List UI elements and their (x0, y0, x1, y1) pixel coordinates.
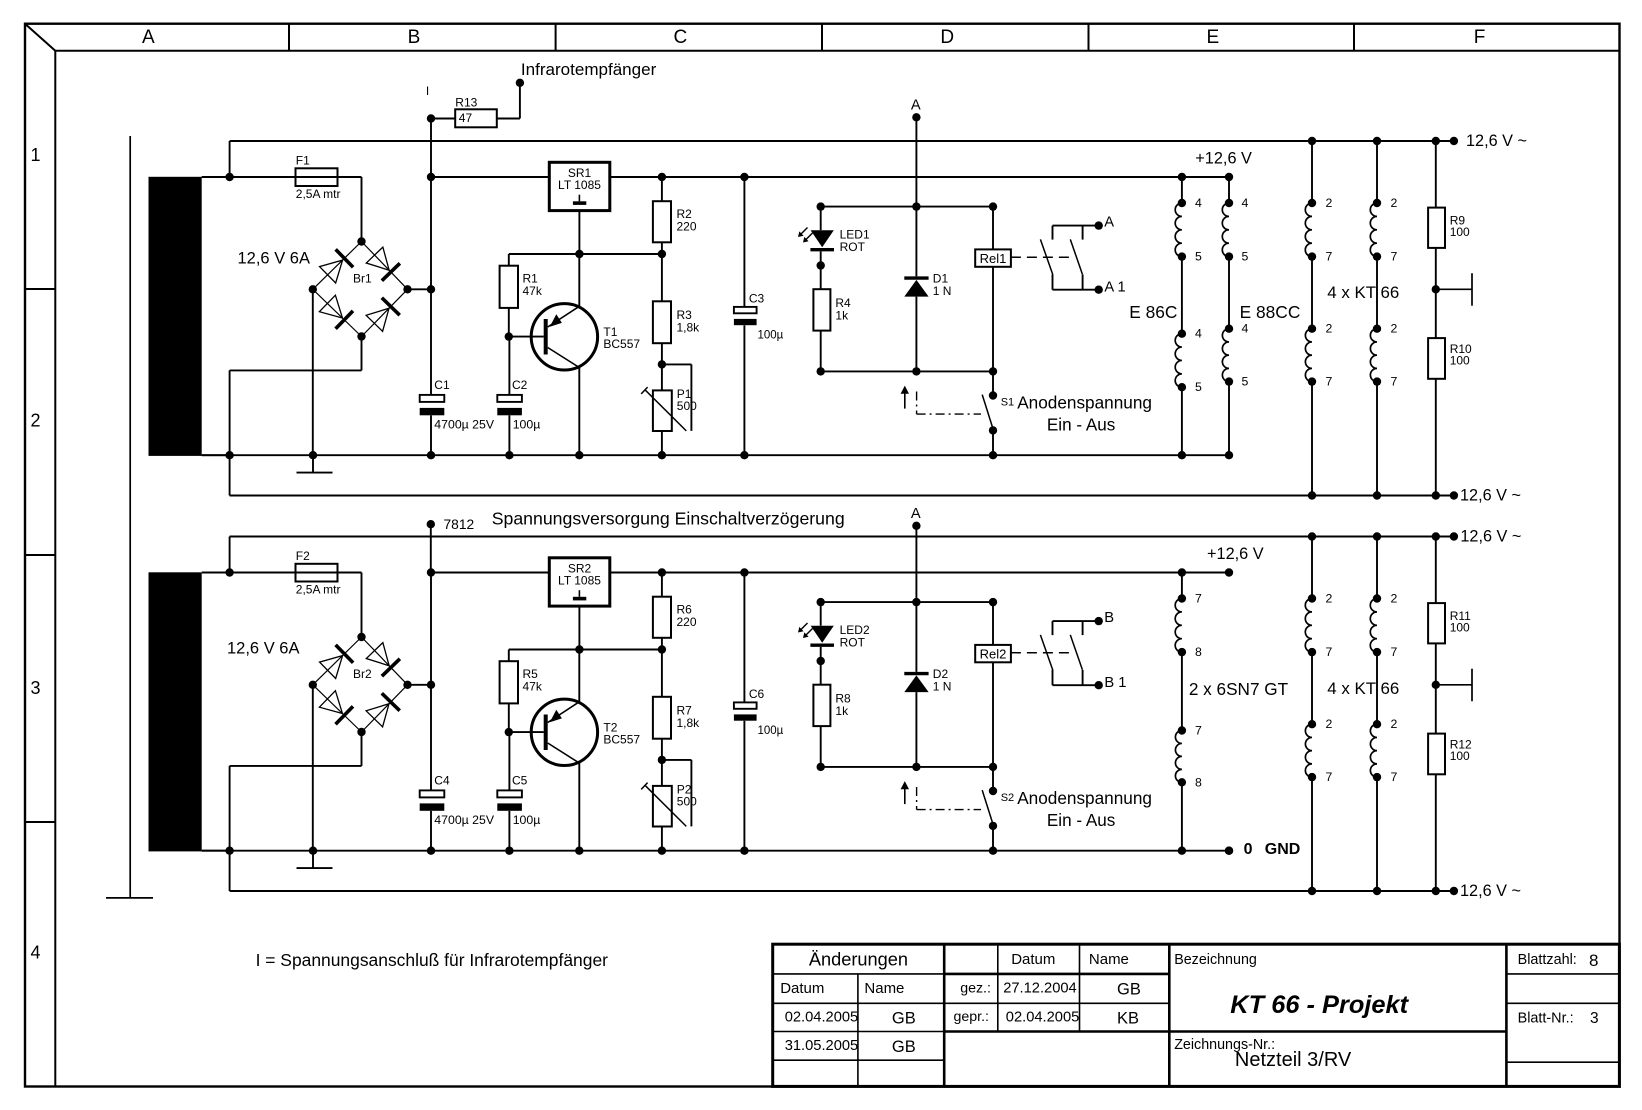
heater winding column E 88CC lower coil (1222, 257, 1233, 456)
svg-text:4 x KT 66: 4 x KT 66 (1327, 679, 1399, 698)
svg-text:7812: 7812 (444, 517, 475, 532)
junction on 0V bus (1178, 451, 1186, 459)
KT 66 heater column 2 lower coil (1370, 257, 1381, 496)
voltage regulator SR2 LT 1085 (549, 558, 610, 606)
svg-text:2: 2 (1326, 592, 1333, 606)
wire SR1 adj to divider (509, 211, 662, 254)
svg-text:2: 2 (1391, 592, 1398, 606)
svg-text:GB: GB (892, 1009, 916, 1027)
svg-text:B: B (1104, 610, 1114, 626)
svg-text:7: 7 (1391, 375, 1398, 389)
potentiometer P1 500 (641, 364, 691, 455)
junction divider top node (658, 645, 666, 653)
junction on LED relay bottom rail (989, 367, 997, 375)
junction on 0V bus (309, 847, 317, 855)
heater winding column 2 x 6SN7 GT upper coil (1175, 573, 1186, 657)
title block vertical divider before Blattzahl (1505, 944, 1508, 1086)
KT 66 heater column 2 upper coil (1370, 537, 1381, 657)
junction on LED relay top rail (989, 598, 997, 606)
switch S1 Anodenspannung Ein - Aus (982, 371, 997, 455)
ground pin symbol inside SR1 (573, 195, 586, 205)
svg-text:A: A (911, 506, 921, 522)
resistor R4 1k (813, 266, 830, 372)
svg-text:4: 4 (1195, 196, 1202, 210)
svg-text:1 N: 1 N (933, 680, 952, 694)
junction heater center tap (1432, 681, 1440, 689)
frame row divider 1 (25, 288, 55, 290)
svg-text:8: 8 (1195, 645, 1202, 659)
resistor R9 100 (1428, 141, 1445, 289)
svg-text:Datum: Datum (780, 980, 824, 997)
svg-text:Anodenspannung: Anodenspannung (1017, 788, 1152, 808)
frame left band line (54, 51, 56, 1087)
svg-text:5: 5 (1242, 250, 1249, 264)
junction transformer top (225, 568, 233, 576)
svg-text:GB: GB (892, 1038, 916, 1056)
ground symbol at heater center tap (1436, 273, 1472, 306)
junction LED cathode node (817, 261, 825, 269)
junction on upper 12,6 V ~ rail (1308, 532, 1316, 540)
voltage regulator SR1 LT 1085 (549, 162, 610, 210)
KT 66 heater column 1 lower coil (1305, 652, 1316, 891)
svg-text:Br1: Br1 (353, 272, 372, 286)
junction bridge Br1 top node (357, 237, 365, 245)
frame header band line (55, 50, 1619, 52)
junction on LED relay top rail (817, 202, 825, 210)
LED LED1 ROT (798, 207, 834, 266)
wire 12,6 V ~ lower rail (230, 851, 1454, 891)
svg-text:500: 500 (677, 795, 697, 809)
resistor R6 220 (653, 573, 671, 650)
junction on +12,6V bus (740, 568, 748, 576)
svg-text:A 1: A 1 (1104, 279, 1125, 295)
svg-text:Name: Name (864, 980, 904, 997)
svg-text:2: 2 (30, 410, 40, 430)
svg-text:Bezeichnung: Bezeichnung (1174, 952, 1257, 968)
wire T2 collector to 0V bus (578, 763, 580, 851)
svg-text:Ein - Aus: Ein - Aus (1047, 416, 1115, 435)
junction on 0V bus (575, 451, 583, 459)
svg-text:2 x 6SN7 GT: 2 x 6SN7 GT (1189, 679, 1289, 699)
junction on 0V bus (575, 847, 583, 855)
wire transformer bottom to 0V bus node (202, 850, 230, 852)
terminal B 1 (1095, 681, 1103, 689)
transformer TR2 secondary winding (12,6 V 6A) (149, 572, 202, 851)
svg-text:4: 4 (30, 943, 40, 963)
junction transformer top (225, 173, 233, 181)
junction 7812 node (427, 520, 435, 528)
svg-text:ROT: ROT (840, 240, 866, 254)
svg-text:12,6 V ~: 12,6 V ~ (1460, 882, 1521, 900)
wire A terminal vertical (915, 526, 917, 602)
svg-text:LT 1085: LT 1085 (558, 178, 601, 192)
junction regulator adj node (575, 250, 583, 258)
svg-text:100µ: 100µ (513, 813, 541, 827)
junction on lower 12,6 V ~ rail (1308, 491, 1316, 499)
svg-text:8: 8 (1195, 775, 1202, 789)
svg-text:02.04.2005: 02.04.2005 (785, 1009, 859, 1025)
wire A terminal vertical (915, 117, 917, 206)
svg-text:A: A (1104, 215, 1114, 231)
frame column divider 5 (1353, 24, 1355, 51)
wire LED relay bottom rail (821, 370, 993, 372)
junction on 0V bus (989, 847, 997, 855)
KT 66 heater column 2 lower coil (1370, 652, 1381, 891)
junction base node (505, 332, 513, 340)
svg-text:8: 8 (1589, 951, 1598, 970)
wire bridge Br1 plus output (408, 288, 432, 290)
wire 0V bus (202, 850, 1229, 852)
heater winding column E 86C upper coil (1175, 177, 1186, 261)
label 0 GND (1244, 841, 1301, 858)
svg-text:+12,6 V: +12,6 V (1207, 545, 1264, 563)
title block vertical divider revisions/approvals (943, 944, 946, 1086)
capacitor C2 100u (497, 337, 522, 456)
svg-text:BC557: BC557 (603, 733, 640, 747)
svg-text:C6: C6 (749, 687, 765, 701)
junction bridge Br2 bottom node (357, 728, 365, 736)
svg-text:12,6 V 6A: 12,6 V 6A (227, 639, 299, 657)
capacitor C4 4700u 25V (420, 790, 445, 810)
capacitor C6 100u (734, 573, 757, 851)
svg-text:100µ: 100µ (758, 329, 784, 341)
frame column divider 4 (1088, 24, 1090, 51)
junction base node (505, 728, 513, 736)
svg-text:220: 220 (677, 615, 697, 629)
svg-text:Blatt-Nr.:: Blatt-Nr.: (1518, 1011, 1574, 1027)
junction on LED relay bottom rail (912, 367, 920, 375)
bridge Br1 diode left-bottom arm (313, 289, 362, 336)
transistor T2 BC557 base wire (509, 731, 544, 733)
svg-text:100: 100 (1450, 354, 1470, 368)
svg-text:7: 7 (1391, 250, 1398, 264)
junction on 0V bus (989, 451, 997, 459)
svg-text:500: 500 (677, 399, 697, 413)
svg-text:1: 1 (30, 145, 40, 165)
junction on upper 12,6 V ~ rail (1373, 137, 1381, 145)
svg-text:2: 2 (1326, 196, 1333, 210)
junction raw DC on +bus (427, 568, 435, 576)
actuation arrow for switch (901, 386, 909, 409)
title block row line under Bezeichnung (1169, 1030, 1506, 1033)
wire 12,6 V ~ upper rail (230, 141, 1454, 177)
title block row line under Aenderungen (773, 973, 945, 975)
diode D2 1N (904, 602, 928, 767)
terminal Infrarotempfaenger (516, 79, 524, 87)
svg-text:100µ: 100µ (758, 725, 784, 737)
wire transformer bottom to 0V bus node (202, 454, 230, 456)
terminal 12,6 V ~ upper (1450, 532, 1458, 540)
svg-text:2: 2 (1326, 322, 1333, 336)
junction on 0V bus (740, 451, 748, 459)
wire +12,6V bus (431, 176, 1229, 178)
wire transformer top to fuse node (202, 176, 230, 178)
frame column divider 1 (288, 24, 290, 51)
svg-text:47k: 47k (523, 284, 543, 298)
junction on lower 12,6 V ~ rail (1432, 491, 1440, 499)
svg-text:12,6 V 6A: 12,6 V 6A (238, 250, 310, 268)
svg-text:1,8k: 1,8k (677, 716, 701, 730)
svg-text:7: 7 (1195, 592, 1202, 606)
junction potentiometer top node (658, 756, 666, 764)
terminal 12,6 V ~ lower (1450, 491, 1458, 499)
title block vertical divider Datum/Name middle (1079, 944, 1081, 1031)
resistor R7 1,8k (653, 650, 671, 760)
svg-text:5: 5 (1195, 380, 1202, 394)
svg-text:Infrarotempfänger: Infrarotempfänger (521, 60, 657, 79)
terminal A anode supply (912, 522, 920, 530)
svg-text:F2: F2 (296, 549, 310, 563)
chassis terminal bar (106, 897, 153, 899)
transistor T1 BC557 base wire (509, 336, 544, 338)
svg-text:C3: C3 (749, 292, 765, 306)
junction on lower 12,6 V ~ rail (1308, 887, 1316, 895)
svg-text:100: 100 (1450, 225, 1470, 239)
bridge Br1 diode bottom-right arm (362, 289, 408, 336)
svg-text:12,6 V ~: 12,6 V ~ (1460, 528, 1521, 546)
svg-text:5: 5 (1242, 375, 1249, 389)
junction 0V bus right end (1225, 847, 1233, 855)
svg-text:1,8k: 1,8k (677, 321, 701, 335)
wire R13 to Infrarotempfaenger terminal (519, 83, 521, 119)
svg-text:3: 3 (1590, 1010, 1599, 1027)
bridge Br1 diode top-right arm (362, 242, 408, 290)
mechanical link dash-dot line (917, 392, 981, 415)
transistor T1 BC557 (531, 304, 597, 370)
junction on LED relay bottom rail (817, 763, 825, 771)
junction on LED relay bottom rail (989, 763, 997, 771)
capacitor C3 100u (734, 177, 757, 455)
capacitor C1 4700u 25V (420, 395, 445, 415)
svg-text:gepr.:: gepr.: (954, 1009, 990, 1025)
junction on +12,6V bus (740, 173, 748, 181)
fuse F1 2,5A mtr (230, 168, 362, 186)
wire raw DC vertical (430, 177, 432, 455)
junction on +12,6V bus (1178, 568, 1186, 576)
frame corner diagonal (25, 24, 55, 51)
title block vertical divider Datum/Name left (857, 974, 859, 1087)
junction on 0V bus (427, 451, 435, 459)
wire +12,6V bus (431, 572, 1229, 574)
wire chassis line left (129, 136, 131, 898)
svg-text:1k: 1k (835, 704, 849, 718)
junction on upper 12,6 V ~ rail (1308, 137, 1316, 145)
junction R13 left node (427, 114, 435, 122)
svg-text:4: 4 (1242, 322, 1249, 336)
resistor R13 47 (431, 109, 520, 127)
wire bridge Br1 minus to 0V bus (312, 289, 314, 455)
junction on 0V bus (658, 847, 666, 855)
relay contacts of Rel1 (1040, 226, 1098, 290)
terminal A anode supply (912, 113, 920, 121)
svg-text:gez.:: gez.: (960, 981, 991, 997)
svg-text:3: 3 (30, 678, 40, 698)
KT 66 heater column 2 upper coil (1370, 141, 1381, 261)
resistor R12 100 (1428, 685, 1445, 891)
svg-text:Datum: Datum (1011, 951, 1055, 968)
terminal 12,6 V ~ upper (1450, 137, 1458, 145)
svg-text:7: 7 (1391, 645, 1398, 659)
junction on 0V bus (505, 847, 513, 855)
junction raw DC node (427, 285, 435, 293)
wire 12,6 V ~ upper rail (230, 537, 1454, 573)
junction on upper 12,6 V ~ rail (1432, 137, 1440, 145)
svg-text:+12,6 V: +12,6 V (1195, 149, 1252, 167)
svg-text:12,6 V ~: 12,6 V ~ (1466, 132, 1527, 150)
junction potentiometer top node (658, 360, 666, 368)
svg-text:7: 7 (1326, 645, 1333, 659)
svg-text:S1: S1 (1001, 396, 1014, 408)
svg-text:A: A (911, 97, 921, 113)
junction on 0V bus (427, 847, 435, 855)
svg-text:C: C (674, 27, 688, 48)
junction on upper 12,6 V ~ rail (1432, 532, 1440, 540)
svg-text:220: 220 (677, 220, 697, 234)
svg-text:ROT: ROT (840, 636, 866, 650)
ground symbol on 0V bus (297, 851, 333, 868)
svg-text:Ein - Aus: Ein - Aus (1047, 811, 1115, 830)
svg-text:KB: KB (1117, 1009, 1139, 1027)
svg-text:4 x KT 66: 4 x KT 66 (1327, 283, 1399, 302)
junction bridge Br2 right node (403, 681, 411, 689)
svg-text:S2: S2 (1001, 792, 1014, 804)
junction on lower 12,6 V ~ rail (1373, 491, 1381, 499)
svg-text:Br2: Br2 (353, 667, 372, 681)
junction raw DC node (427, 681, 435, 689)
resistor R10 100 (1428, 289, 1445, 495)
svg-text:GB: GB (1117, 981, 1141, 999)
svg-text:7: 7 (1326, 770, 1333, 784)
LED LED2 ROT (798, 602, 834, 661)
svg-text:Rel2: Rel2 (980, 646, 1007, 661)
svg-text:GND: GND (1265, 841, 1301, 858)
junction bridge Br2 top node (357, 633, 365, 641)
svg-text:4700µ 25V: 4700µ 25V (434, 813, 495, 827)
svg-text:BC557: BC557 (603, 337, 640, 351)
frame column divider 2 (555, 24, 557, 51)
junction regulator adj node (575, 645, 583, 653)
svg-text:B 1: B 1 (1104, 675, 1126, 691)
junction on upper 12,6 V ~ rail (1373, 532, 1381, 540)
resistor R8 1k (813, 661, 830, 767)
svg-text:F: F (1474, 27, 1486, 48)
fuse F2 2,5A mtr (230, 564, 362, 582)
junction bridge Br2 left node (309, 681, 317, 689)
transformer TR1 secondary winding (12,6 V 6A) (149, 177, 202, 456)
svg-text:C4: C4 (434, 773, 450, 787)
wire T1 collector to 0V bus (578, 368, 580, 456)
relay contact dashed link from Rel2 (1011, 652, 1074, 654)
mechanical link dash-dot line (917, 787, 981, 810)
heater winding column 2 x 6SN7 GT lower coil (1175, 652, 1186, 851)
wire fuse to bridge Br2 AC top (361, 573, 363, 638)
ground symbol on 0V bus (297, 455, 333, 472)
junction on 0V bus (740, 847, 748, 855)
KT 66 heater column 1 lower coil (1305, 257, 1316, 496)
wire 0V bus (202, 454, 1229, 456)
svg-text:Änderungen: Änderungen (809, 949, 908, 969)
junction bridge Br1 bottom node (357, 332, 365, 340)
wire 7812 node to bus (430, 524, 432, 572)
junction on LED relay top rail (817, 598, 825, 606)
junction on 0V bus (1178, 847, 1186, 855)
junction on LED relay bottom rail (912, 763, 920, 771)
ground pin symbol inside SR2 (573, 590, 586, 600)
wire SR2 adj to divider (509, 606, 662, 649)
bridge Br1 diode left-top arm (313, 242, 362, 290)
terminal A (1095, 221, 1103, 229)
junction +12,6V bus right end (1225, 568, 1233, 576)
svg-text:D1: D1 (933, 271, 949, 285)
junction on +12,6V bus (658, 173, 666, 181)
junction raw DC on +bus (427, 173, 435, 181)
diode D1 1N (904, 207, 928, 372)
potentiometer P2 500 (641, 760, 691, 851)
svg-text:2,5A mtr: 2,5A mtr (296, 582, 341, 596)
junction on 0V bus (309, 451, 317, 459)
heater winding column E 88CC upper coil (1222, 177, 1233, 261)
svg-text:A: A (142, 27, 155, 48)
junction LED cathode node (817, 657, 825, 665)
svg-text:100: 100 (1450, 621, 1470, 635)
junction on LED relay top rail (989, 202, 997, 210)
svg-text:2: 2 (1391, 717, 1398, 731)
wire LED relay bottom rail (821, 766, 993, 768)
junction on 0V bus (505, 451, 513, 459)
resistor R11 100 (1428, 537, 1445, 685)
frame row divider 2 (25, 554, 55, 556)
svg-text:4: 4 (1242, 196, 1249, 210)
wire LED relay top rail (821, 206, 993, 208)
junction transformer bottom (225, 847, 233, 855)
wire fuse to bridge Br1 AC top (361, 177, 363, 242)
title block vertical divider gez column (997, 944, 999, 1031)
svg-text:47k: 47k (523, 679, 543, 693)
junction transformer bottom (225, 451, 233, 459)
svg-text:1k: 1k (835, 309, 849, 323)
svg-text:4: 4 (1195, 327, 1202, 341)
svg-text:12,6 V ~: 12,6 V ~ (1460, 487, 1521, 505)
svg-text:100µ: 100µ (513, 417, 541, 431)
svg-text:Anodenspannung: Anodenspannung (1017, 393, 1152, 413)
svg-text:0: 0 (1244, 841, 1253, 858)
heater winding column E 86C lower coil (1175, 257, 1186, 456)
svg-text:KT 66 - Projekt: KT 66 - Projekt (1230, 991, 1409, 1019)
svg-text:E 86C: E 86C (1129, 302, 1177, 322)
frame row divider 3 (25, 821, 55, 823)
title block outer border (773, 944, 1620, 1086)
relay contacts of Rel2 (1040, 621, 1098, 685)
junction divider top node (658, 250, 666, 258)
svg-text:Blattzahl:: Blattzahl: (1518, 952, 1577, 968)
frame column divider 3 (821, 24, 823, 51)
svg-text:D2: D2 (933, 667, 949, 681)
svg-text:Rel1: Rel1 (980, 251, 1007, 266)
terminal 0 GND (1225, 847, 1233, 855)
wire raw DC node up to R13 node (430, 119, 432, 178)
capacitor C5 100u (497, 732, 522, 851)
svg-text:C1: C1 (434, 378, 450, 392)
wire bridge Br2 plus output (408, 684, 432, 686)
switch S2 Anodenspannung Ein - Aus (982, 767, 997, 851)
relay coil Rel2 (975, 602, 1011, 767)
junction on LED relay top rail (912, 598, 920, 606)
bridge Br2 diode top-right arm (362, 637, 408, 685)
title block row line under gepr row thick (944, 1030, 1169, 1033)
ground symbol at heater center tap (1436, 669, 1472, 702)
bridge Br2 diode left-top arm (313, 637, 362, 685)
relay contact dashed link from Rel1 (1011, 256, 1074, 258)
